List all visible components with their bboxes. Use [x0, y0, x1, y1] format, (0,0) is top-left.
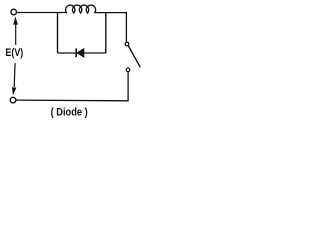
terminal (top-left, source positive terminal) [11, 9, 17, 15]
label ( Diode ) [51, 107, 88, 119]
label E(V) [5, 47, 23, 59]
wire right branch (diode up to top rail junction) [105, 13, 107, 54]
wire right side (switch bottom contact down to bottom rail) and bottom rail [16, 72, 128, 101]
switch S blade (open) [128, 46, 140, 67]
wire top rail (terminal to inductor) [17, 12, 67, 14]
inductor L [66, 5, 96, 13]
svg-text:( Diode ): ( Diode ) [51, 107, 88, 119]
switch S bottom contact [126, 68, 130, 72]
arrow down (E(V) polarity arrow pointing at bottom terminal) [12, 63, 17, 95]
wire diode branch horizontal [58, 52, 106, 54]
diode D (freewheeling, cathode on left) [76, 48, 84, 57]
terminal (bottom-left, source negative terminal) [10, 97, 16, 103]
switch S top contact [125, 42, 129, 46]
wire top rail (inductor to top-right corner) and drop to switch [94, 13, 126, 42]
arrow up (E(V) polarity arrow pointing at top terminal) [13, 16, 18, 45]
wire left branch (junction on top rail down to diode) [57, 13, 59, 54]
svg-text:E(V): E(V) [5, 47, 23, 59]
